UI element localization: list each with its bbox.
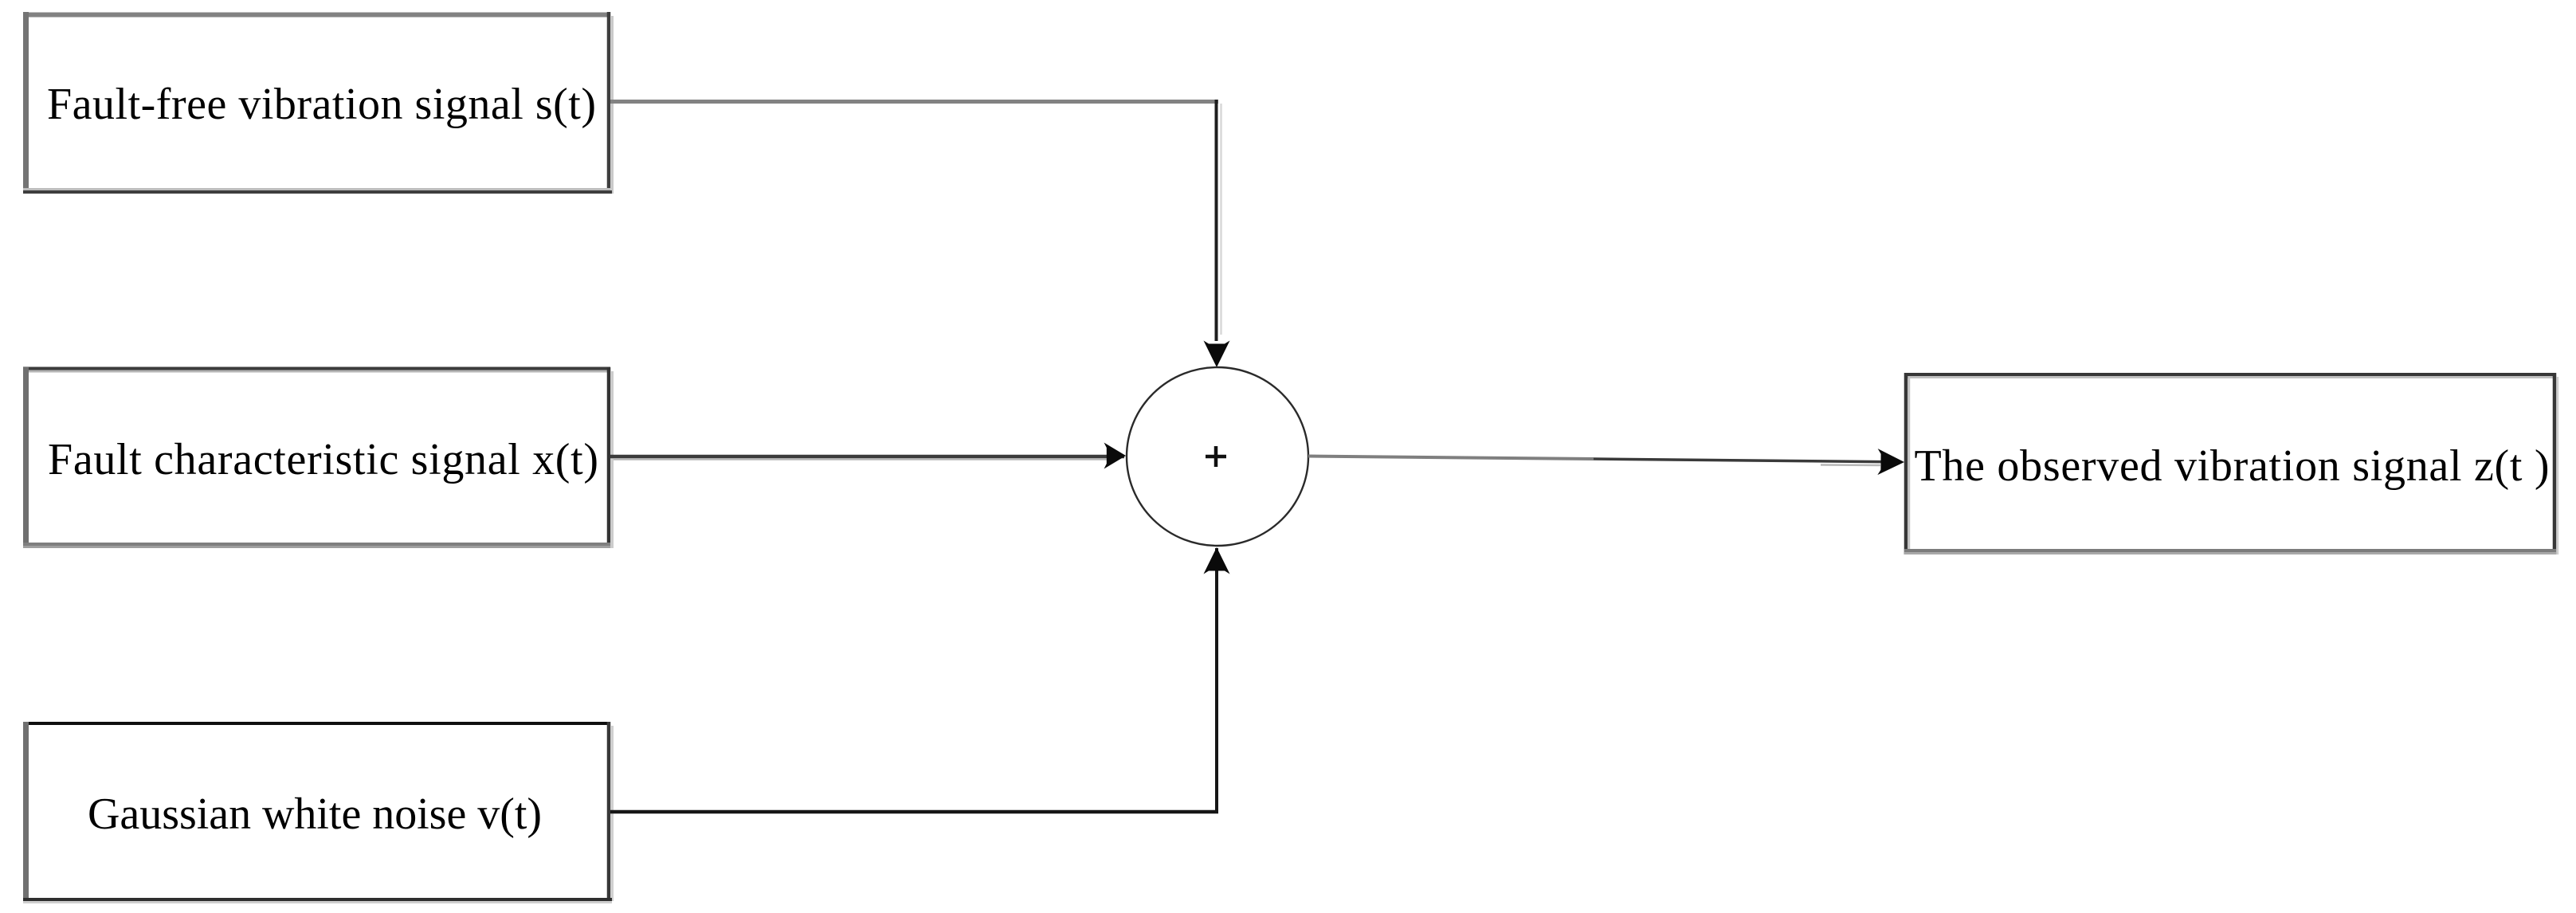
- svg-text:The observed vibration signal: The observed vibration signal z(t ): [1915, 441, 2550, 491]
- arrowhead A1 into circle top: [1204, 341, 1230, 368]
- wire W3a horizontal from B3 to corner: [610, 810, 1218, 814]
- box B1 Fault-free vibration signal s(t): [23, 12, 613, 194]
- wire W3b vertical from corner up to summing junction: [1215, 548, 1218, 813]
- wire W4b continuing segment to output box: [1594, 459, 1900, 462]
- arrowhead A4 into output box: [1877, 449, 1904, 475]
- box B3 Gaussian white noise v(t): [23, 722, 613, 903]
- plus sign in summing junction: [1206, 446, 1226, 467]
- wire W1b vertical from corner down to summing junction: [1215, 100, 1218, 341]
- svg-text:Fault-free vibration signal s(: Fault-free vibration signal s(t): [47, 80, 596, 129]
- svg-text:Gaussian white noise v(t): Gaussian white noise v(t): [88, 790, 542, 839]
- wire W4 shadow near output box: [1821, 464, 1880, 466]
- wire W2 shadow: [614, 458, 1112, 460]
- box B4 The observed vibration signal z(t ): [1904, 373, 2558, 554]
- wire W2 horizontal from B2 to summing junction: [610, 455, 1124, 459]
- wire W1b shadow: [1220, 104, 1222, 335]
- arrowhead A3 into circle bottom: [1204, 547, 1230, 574]
- box B2 Fault characteristic signal x(t): [23, 367, 613, 548]
- wire W4a from circle right, grey segment: [1308, 457, 1594, 460]
- summing junction circle U1: [1127, 367, 1308, 546]
- wire W1a horizontal from B1 to corner: [610, 100, 1218, 104]
- arrowhead A2 into circle left: [1104, 443, 1126, 469]
- svg-text:Fault characteristic signal x(: Fault characteristic signal x(t): [48, 435, 598, 484]
